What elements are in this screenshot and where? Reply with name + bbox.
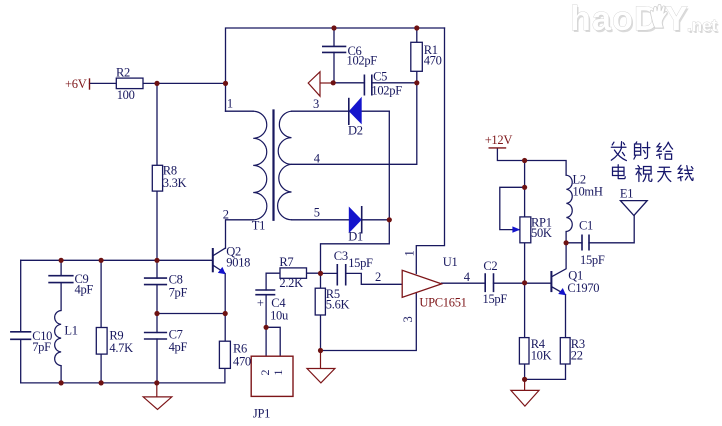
svg-text:3.3K: 3.3K (163, 176, 187, 190)
svg-text:C3: C3 (334, 249, 348, 263)
svg-text:1: 1 (403, 251, 417, 257)
svg-text:2: 2 (223, 208, 229, 222)
svg-text:100: 100 (117, 88, 135, 102)
svg-text:UPC1651: UPC1651 (419, 296, 466, 310)
svg-text:3: 3 (313, 97, 319, 111)
svg-text:+12V: +12V (485, 133, 513, 147)
svg-text:T1: T1 (252, 219, 265, 233)
svg-text:C5: C5 (373, 70, 387, 84)
svg-text:7pF: 7pF (32, 340, 51, 354)
svg-text:4pF: 4pF (169, 340, 188, 354)
svg-text:+: + (257, 296, 264, 310)
svg-text:5.6K: 5.6K (326, 298, 350, 312)
svg-text:U1: U1 (443, 255, 458, 269)
svg-text:2: 2 (375, 270, 381, 284)
svg-text:10K: 10K (531, 349, 552, 363)
svg-text:7pF: 7pF (169, 286, 188, 300)
svg-text:102pF: 102pF (347, 54, 378, 68)
svg-text:4pF: 4pF (75, 283, 94, 297)
svg-text:+6V: +6V (65, 77, 87, 91)
svg-text:102pF: 102pF (371, 83, 402, 97)
svg-text:10u: 10u (270, 308, 289, 322)
svg-text:R2: R2 (116, 66, 130, 80)
svg-text:50K: 50K (531, 226, 552, 240)
svg-text:9018: 9018 (226, 256, 250, 270)
svg-text:haoD: haoD (570, 0, 660, 38)
svg-text:C1: C1 (579, 219, 593, 233)
svg-text:R7: R7 (279, 255, 293, 269)
svg-text:C8: C8 (169, 273, 183, 287)
svg-text:470: 470 (424, 54, 442, 68)
svg-text:E1: E1 (620, 187, 633, 201)
svg-text:2: 2 (258, 370, 272, 376)
svg-text:D1: D1 (348, 230, 363, 244)
svg-text:JP1: JP1 (253, 407, 270, 421)
svg-text:470: 470 (233, 355, 251, 369)
svg-text:2.2K: 2.2K (279, 276, 303, 290)
svg-text:C2: C2 (483, 259, 497, 273)
svg-text:R8: R8 (163, 163, 177, 177)
svg-text:4.7K: 4.7K (109, 341, 133, 355)
svg-text:D2: D2 (348, 123, 363, 137)
svg-text:10mH: 10mH (573, 185, 603, 199)
svg-text:3: 3 (401, 317, 415, 323)
svg-text:1: 1 (227, 97, 233, 111)
svg-text:15pF: 15pF (483, 292, 508, 306)
svg-text:15pF: 15pF (580, 253, 605, 267)
svg-text:4: 4 (314, 152, 321, 166)
svg-text:5: 5 (314, 205, 320, 219)
svg-text:22: 22 (571, 349, 583, 363)
svg-text:.net: .net (687, 16, 718, 35)
svg-text:15pF: 15pF (348, 256, 373, 270)
svg-text:L1: L1 (64, 324, 77, 338)
svg-text:1: 1 (271, 370, 285, 376)
svg-text:Y: Y (665, 0, 688, 38)
svg-text:R6: R6 (233, 342, 247, 356)
svg-text:4: 4 (464, 270, 471, 284)
svg-text:C1970: C1970 (567, 281, 599, 295)
